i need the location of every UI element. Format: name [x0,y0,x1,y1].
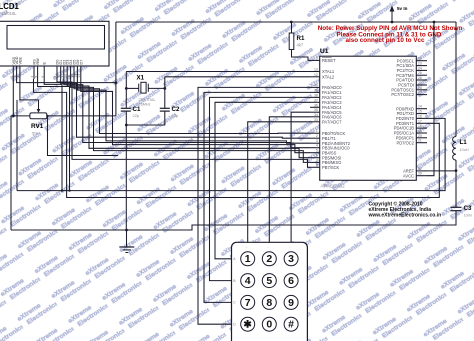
keypad button 9 [284,295,298,309]
svg-text:36: 36 [314,103,318,107]
svg-text:6: 6 [288,275,294,287]
svg-text:20: 20 [418,134,422,138]
potentiometer RV1 [30,113,47,119]
wire LCD D7 to PB4 [81,79,310,153]
U1 right pin 27 PC5/TDI [416,84,427,86]
wire AREF [427,170,456,172]
U1 left pin 13 XTAL1 [310,71,320,73]
svg-text:30: 30 [418,172,422,176]
junction VSS-RV1 [12,115,15,118]
U1 right pin 17 PD3/INT1 [416,122,427,124]
svg-text:8: 8 [316,163,318,167]
U1 right pin 26 PC4/TDO [416,79,427,81]
U1 right pin 18 PD4/OC1B [416,127,427,129]
wire LCD D5 to PB0 [74,79,310,134]
svg-text:7: 7 [245,297,251,309]
U1 left pin 2 PB1/T1 [310,137,320,139]
wire branch to long net [16,100,18,191]
svg-text:1: 1 [245,253,251,265]
svg-text:RV1: RV1 [31,123,44,130]
svg-text:RESET: RESET [322,58,336,63]
U1 left pin 37 PA3/ADC3 [310,101,320,103]
resistor R1 [291,22,293,33]
U1 left pin 35 PA5/ADC5 [310,111,320,113]
U1 left pin 38 PA2/ADC2 [310,96,320,98]
U1 right pin 19 PD5/OC1A [416,132,427,134]
wire keypad row B to PA2 [210,97,311,280]
U1 right pin 32 AREF [416,170,427,172]
svg-text:X1: X1 [137,75,145,82]
svg-text:15: 15 [418,110,422,114]
U1 left pin 1 PB0/T0/XCK [310,132,320,134]
wire crystal left [126,87,138,89]
svg-text:12: 12 [314,73,318,77]
svg-text:4k7: 4k7 [297,43,304,48]
svg-text:also connect pin 10 to Vcc: also connect pin 10 to Vcc [345,37,425,44]
svg-text:3: 3 [316,139,318,143]
wire C1 bottom to gnd rail [125,111,127,230]
U1 left pin 8 PB7/SCK [310,166,320,168]
svg-text:10uH: 10uH [460,148,469,152]
wire RV1 right to 5V drop [47,115,116,117]
U1 left pin 6 PB5/MOSI [310,157,320,159]
svg-text:2: 2 [316,134,318,138]
keypad button 0 [262,317,276,331]
svg-text:3: 3 [16,76,20,78]
svg-text:22p: 22p [133,113,140,118]
wire LCD D0 to PB7 [57,79,310,167]
wire RV1 left to VSS/gnd [11,115,30,117]
svg-text:←: ← [267,246,270,249]
svg-text:C2: C2 [172,106,180,113]
capacitor C1 [121,107,131,109]
svg-text:5v In: 5v In [397,6,408,11]
wire XTAL2 net [165,76,310,78]
junction R1 top [290,21,293,24]
U1 left pin 5 PB4/SS [310,152,320,154]
junction X1-C2 [163,87,166,90]
svg-text:5: 5 [316,149,318,153]
wire LCD D6 to PB2 [77,79,310,143]
wire LCD D3 to PB5 [67,79,310,158]
svg-text:www.eXtremeElectronics.co.in: www.eXtremeElectronics.co.in [368,213,442,219]
U1 left pin 34 PA6/ADC6 [310,116,320,118]
junction AVCC branch [433,21,436,24]
wire keypad col 3 to PA5 [291,112,310,242]
svg-text:39: 39 [314,88,318,92]
keypad button 3 [284,252,298,266]
wire 5V drop to LCD VDD / RV1 [115,22,117,116]
svg-text:37: 37 [314,98,318,102]
junction caps bottom [125,124,128,127]
svg-text:U1: U1 [320,48,329,55]
junction X1-C1 [125,87,128,90]
wire 5V to L1 [455,22,457,137]
keypad button 8 [262,295,276,309]
svg-text:LM016L: LM016L [2,11,18,16]
svg-text:XTAL2: XTAL2 [322,74,335,79]
wire LCD D2 to PB3 [64,79,310,148]
svg-text:0: 0 [266,319,272,331]
U1 left pin 33 PA7/ADC7 [310,121,320,123]
svg-text:40: 40 [314,83,318,87]
U1 right pin 21 PD7/OC2 [416,142,427,144]
svg-text:LCD1: LCD1 [0,2,20,11]
svg-text:←: ← [245,246,248,249]
svg-text:VEE: VEE [18,56,22,64]
svg-text:XTAL1: XTAL1 [322,69,335,74]
junction AREF node [455,169,458,172]
U1 right pin 22 PC0/SCL [416,60,427,62]
wire C1 top / XTAL1 drop [125,72,127,109]
svg-text:8: 8 [266,297,272,309]
keypad button 4 [241,274,255,288]
wire long net to PD2 [17,118,445,190]
wire AVCC to 5V rail [427,22,434,176]
U1 left pin 3 PB2/AIN0/INT2 [310,142,320,144]
U1 left pin 7 PB6/MISO [310,161,320,163]
keypad button 5 [262,274,276,288]
svg-text:24: 24 [418,66,422,70]
wire LCD D1 to PB1 [60,79,310,138]
wire keypad row A to PA3 [215,102,310,258]
wire C2 bottom return [126,111,165,125]
svg-text:50k: 50k [32,131,38,136]
wire keypad row C to PA1 [204,92,310,302]
svg-text:5: 5 [266,275,272,287]
wire XTAL1 net [126,71,310,73]
5v In power arrow [390,6,395,12]
wire RV1 right branch down [48,116,119,156]
svg-text:27: 27 [418,81,422,85]
svg-text:PC7/TOSC2: PC7/TOSC2 [391,92,414,97]
svg-text:D7: D7 [79,60,83,65]
junction 5V arrow [391,21,394,24]
svg-text:R1: R1 [297,35,305,42]
svg-text:5: 5 [34,76,38,78]
U1 right pin 29 PC7/TOSC2 [416,94,427,96]
wire LCD RS to PD3 [34,79,440,198]
svg-text:17: 17 [418,119,422,123]
wire keypad col 1 to PA7 [248,122,310,243]
wire keypad row D to PA0 [198,87,310,324]
svg-text:35: 35 [314,108,318,112]
wire LCD VDD to 5V [17,79,116,83]
wire LCD VEE to RV1 wiper [20,79,39,100]
wire L1 to C3 [455,160,457,207]
svg-text:ATMEGA32: ATMEGA32 [321,184,346,189]
U1 right pin 16 PD2/INT0 [416,117,427,119]
svg-text:←: ← [289,246,292,249]
keypad button ✱ [241,317,255,331]
wire LCD RW down [38,79,70,191]
wire C2 top / XTAL2 drop [164,77,166,109]
wire LCD E down [44,79,62,191]
U1 left pin 36 PA4/ADC4 [310,106,320,108]
svg-text:9: 9 [316,56,318,60]
svg-text:CRYSTAL: CRYSTAL [139,98,156,102]
capacitor C3 [451,206,462,208]
svg-text:14: 14 [77,74,81,78]
svg-text:34: 34 [314,113,318,117]
svg-text:AVCC: AVCC [403,173,414,178]
U1 left pin 9 RESET [310,59,320,61]
svg-text:2: 2 [266,253,272,265]
LCD LCD1 [0,21,109,66]
capacitor C2 [160,107,170,109]
svg-text:6: 6 [316,154,318,158]
wire LCD D4 to PB6 [71,79,310,162]
keypad button 2 [262,252,276,266]
keypad button 6 [284,274,298,288]
U1 right pin 28 PC6/TOSC1 [416,89,427,91]
svg-text:19: 19 [418,129,422,133]
svg-text:21: 21 [418,139,422,143]
keypad KP1 [232,242,308,341]
svg-text:26: 26 [418,76,422,80]
svg-text:25: 25 [418,71,422,75]
ground [126,230,128,247]
svg-text:38: 38 [314,93,318,97]
svg-text:32: 32 [418,167,422,171]
svg-text:9: 9 [288,297,294,309]
svg-text:14: 14 [418,105,422,109]
svg-text:22p: 22p [172,113,179,118]
svg-text:33: 33 [314,118,318,122]
svg-text:3: 3 [288,253,294,265]
U1 right pin 14 PD0/RXD [416,108,427,110]
svg-text:4: 4 [245,275,251,287]
U1 right pin 23 PC1/SDA [416,65,427,67]
svg-text:100n: 100n [464,214,472,218]
keypad button # [284,317,298,331]
U1 right pin 20 PD6/ICP1 [416,137,427,139]
U1 right pin 25 PC3/TMS [416,74,427,76]
svg-text:29: 29 [418,91,422,95]
U1 right pin 24 PC2/TCK [416,69,427,71]
U1 left pin 4 PB3/AIN1/OC0 [310,147,320,149]
svg-text:18: 18 [418,124,422,128]
svg-text:28: 28 [418,86,422,90]
wire 5V top rail [116,21,456,23]
svg-text:4: 4 [316,144,318,148]
wire LCD VSS down [12,79,14,116]
junction gnd [125,229,128,232]
keypad button 7 [241,295,255,309]
U1 right pin 15 PD1/TXD [416,113,427,115]
MCU U1 ATMEGA32 [320,56,417,180]
svg-text:22: 22 [418,57,422,61]
wire gnd rail [11,211,456,230]
svg-text:#: # [288,319,294,331]
svg-text:RW: RW [36,58,40,65]
svg-text:PB7/SCK: PB7/SCK [322,165,340,170]
U1 right pin 30 AVCC [416,175,427,177]
svg-text:6: 6 [40,76,44,78]
svg-text:13: 13 [314,68,318,72]
svg-text:✱: ✱ [243,320,252,331]
svg-text:PA7/ADC7: PA7/ADC7 [322,119,342,124]
keypad button 1 [241,252,255,266]
svg-text:16: 16 [418,114,422,118]
wire keypad col 2 to PA6 [269,117,310,243]
U1 left pin 40 PA0/ADC0 [310,86,320,88]
svg-text:PD7/OC2: PD7/OC2 [396,140,414,145]
svg-text:7: 7 [316,158,318,162]
wire gnd drop left [10,116,12,230]
svg-text:C3: C3 [464,205,472,212]
U1 left pin 12 XTAL2 [310,76,320,78]
svg-text:L1: L1 [460,139,468,146]
svg-text:23: 23 [418,62,422,66]
junction RV1 right [46,115,48,117]
svg-text:1: 1 [316,129,318,133]
junction VDD tap [115,81,118,84]
U1 left pin 39 PA1/ADC1 [310,91,320,93]
wire crystal right [148,87,165,89]
svg-text:C1: C1 [133,106,141,113]
